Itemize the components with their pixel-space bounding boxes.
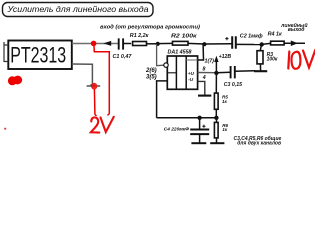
- op-amp output row divider: [186, 59, 197, 61]
- red speck bottom left: [4, 128, 6, 130]
- wire op-amp output pin 1 up to node B: [198, 44, 204, 60]
- capacitor C2: [232, 36, 236, 49]
- svg-text:+U: +U: [188, 71, 195, 76]
- left connector bracket of PT2313: [4, 42, 8, 62]
- op-amp input row divider: [167, 72, 176, 74]
- svg-text:1(7): 1(7): [205, 58, 215, 64]
- svg-text:C2 1мкф: C2 1мкф: [240, 33, 263, 40]
- svg-text:выход: выход: [288, 27, 305, 33]
- wire non-inverting input (pin 3): [157, 81, 168, 118]
- wire R2 to node B: [188, 42, 233, 45]
- wire C1 to R1: [123, 43, 131, 45]
- ground bar under R3: [254, 70, 267, 72]
- bias wire to pin 3: [157, 117, 217, 119]
- resistor R6 (vertical): [216, 118, 218, 123]
- svg-text:3(5): 3(5): [146, 75, 157, 81]
- node junction dot on +12V rail: [214, 71, 218, 75]
- capacitor C3: [231, 66, 235, 78]
- svg-text:DA1 4558: DA1 4558: [168, 49, 192, 55]
- resistor R5 (vertical): [214, 93, 218, 109]
- red annotation 2V: [91, 117, 114, 133]
- svg-text:C1 0,47: C1 0,47: [113, 54, 133, 60]
- node junction dot R5/R6: [214, 116, 218, 120]
- svg-text:1к: 1к: [222, 127, 228, 132]
- signal arrow (points left): [103, 41, 111, 46]
- svg-text:вход (от регулятора громкости): вход (от регулятора громкости): [100, 24, 200, 30]
- ground bar under C4: [191, 142, 206, 144]
- inverting input circle: [164, 63, 168, 67]
- svg-text:+12В: +12В: [219, 54, 232, 60]
- resistor R1: [133, 42, 147, 46]
- title box: [3, 3, 154, 17]
- red blob under PT2313: [8, 76, 17, 85]
- wire node A down to inverting input (pin 2): [157, 44, 164, 66]
- node C junction dot: [260, 42, 264, 46]
- red check mark over arrow: [91, 83, 97, 90]
- svg-text:C3 0,15: C3 0,15: [224, 82, 242, 88]
- wire from PT2313 output to C1: [72, 43, 118, 45]
- node A junction dot: [156, 42, 160, 46]
- svg-text:4: 4: [202, 75, 206, 81]
- wire node C to R4: [262, 43, 271, 44]
- node: red probe dot: [91, 41, 97, 47]
- wire +12V rail down to R5: [215, 73, 217, 93]
- svg-text:R2 100к: R2 100к: [171, 33, 197, 39]
- resistor R3 (vertical): [260, 45, 261, 51]
- resistor R4: [271, 41, 285, 45]
- capacitor C1: [119, 38, 123, 49]
- wire C3 to ground: [235, 70, 255, 73]
- svg-text:1к: 1к: [222, 99, 228, 104]
- C4 polarity plus: [202, 125, 205, 128]
- svg-text:C4 220мкФ: C4 220мкФ: [164, 126, 189, 132]
- +12V supply arrow: [215, 61, 217, 73]
- svg-text:PT2313: PT2313: [10, 43, 66, 68]
- svg-text:Усилитель для линейного выхода: Усилитель для линейного выхода: [6, 5, 149, 14]
- wire R1 to node A: [147, 43, 158, 45]
- red annotation 10V: [288, 50, 315, 69]
- wire PT2313 second pin to test point: [72, 64, 93, 85]
- wire pin 4 (-U) to ground: [198, 81, 205, 95]
- node B junction dot: [202, 42, 206, 46]
- ground bar under pin 4: [198, 95, 211, 97]
- wire node A to R2: [158, 42, 173, 44]
- svg-text:R1 2,2к: R1 2,2к: [130, 33, 149, 39]
- wire pin 8 (+U) to +12V rail: [198, 72, 217, 74]
- capacitor C2 polarity plus: [225, 37, 228, 40]
- capacitor C4 (electrolytic): [199, 117, 201, 128]
- svg-text:2(6): 2(6): [145, 68, 157, 74]
- svg-text:8: 8: [203, 67, 206, 73]
- svg-text:-U: -U: [188, 77, 194, 82]
- output arrow: [291, 41, 298, 47]
- op-amp internal dividers: [176, 56, 186, 89]
- test point bar and down arrow tip: [87, 85, 101, 87]
- op-amp DA1 4558 box: [167, 56, 197, 89]
- wire +12V node to C3: [216, 71, 230, 74]
- resistor R2: [173, 41, 189, 45]
- wire R4 to output: [285, 42, 306, 44]
- node junction dot C4: [197, 116, 201, 120]
- svg-text:100к: 100к: [267, 56, 278, 62]
- red annotation: probe path from dot: [94, 46, 109, 115]
- chip PT2313: [8, 41, 72, 70]
- svg-text:R4 1к: R4 1к: [268, 31, 282, 37]
- svg-text:для двух каналов: для двух каналов: [237, 141, 281, 147]
- wire C2 to node C: [236, 43, 262, 45]
- ground bar under R6: [210, 142, 224, 144]
